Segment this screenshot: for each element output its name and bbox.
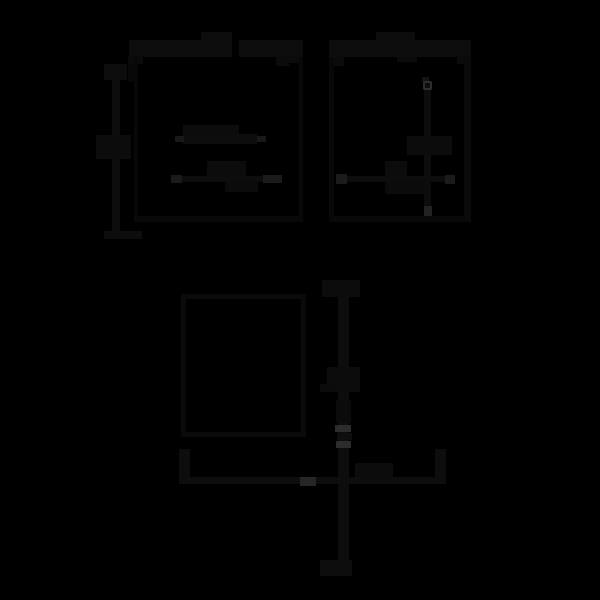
wire right bar center stub (397, 57, 417, 62)
dimension D4 line (336, 176, 455, 182)
dimension D4 right arrowhead (445, 175, 455, 184)
dimension D7 right stub (435, 449, 446, 477)
dimension D5 top arrowhead (422, 77, 429, 82)
dimension D4 left arrowhead (336, 174, 347, 184)
dimension D6 mid label A (327, 367, 360, 392)
dimension D2 right arrowhead (257, 136, 266, 142)
dimension D6 mid label B (336, 400, 351, 423)
dimension D2 left arrowhead (175, 136, 184, 142)
node left box edge top widening (128, 64, 136, 82)
node right view top bar (329, 40, 471, 57)
wire right bar left stub (330, 57, 344, 66)
dimension D7 bracket line (179, 477, 446, 484)
node left view outline (134, 57, 303, 222)
dimension D6 mid label A left lobe (320, 384, 336, 392)
node left bar inner step block (276, 57, 289, 66)
dimension D5 top hook (423, 81, 432, 90)
dimension D6 chevron mid (337, 433, 352, 440)
label right view title (376, 32, 415, 40)
wire left bar right stub (288, 56, 303, 63)
dimension D5 mid label (407, 136, 452, 155)
dimension D6 vertical centerline (338, 283, 349, 576)
dimension D6 top label (322, 280, 360, 297)
dimension D4 label below (385, 182, 430, 194)
dimension D3 label above (207, 161, 246, 176)
dimension D3 label below (225, 182, 258, 192)
node left view top bar segment 1 (129, 40, 232, 57)
dimension D2 line (183, 134, 257, 144)
dimension D3 line (171, 176, 282, 182)
dimension D1 value label (96, 135, 131, 159)
label left view title (201, 32, 232, 40)
wire left bar left stub (128, 56, 143, 64)
dimension D3 right arrowhead (263, 175, 282, 183)
dimension D1 top tick (104, 64, 127, 80)
dimension D7 left arrow marks (300, 477, 316, 486)
dimension D6 bottom foot (320, 560, 352, 576)
dimension D7 left stub (179, 449, 190, 477)
dimension D2 label above (183, 125, 239, 134)
node bottom view outline (181, 294, 306, 437)
dimension D7 label (355, 463, 393, 477)
dimension D5 vertical line right view (424, 82, 431, 216)
dimension D6 chevron 2 (336, 441, 351, 448)
dimension D6 chevron 1 (335, 425, 351, 432)
dimension D1 vertical line left (112, 64, 120, 239)
node right view outline (329, 57, 471, 222)
wire right bar right stub (457, 56, 471, 64)
dimension D5 bottom arrowhead (424, 206, 432, 216)
dimension D1 bottom tick (104, 231, 142, 239)
node left view top bar segment 2 (239, 40, 303, 57)
dimension D3 left arrowhead (171, 175, 182, 183)
dimension D4 label above (385, 161, 407, 176)
